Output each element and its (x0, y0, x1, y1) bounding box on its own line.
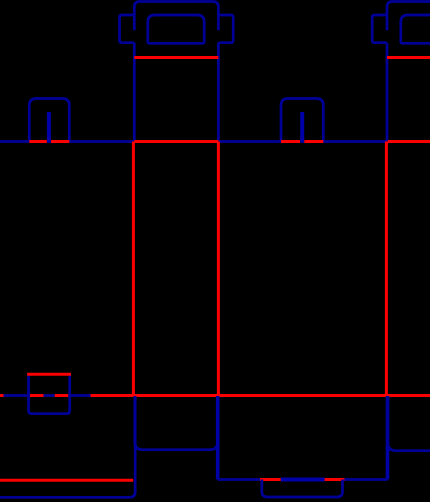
tuck flap 2 outline top (387, 2, 430, 31)
panel fold crease x=218.4 (217, 142, 220, 396)
bottom crease blue cut left of slot (4, 394, 28, 397)
tuck flap 2 left lock ear (372, 15, 387, 43)
wide flap fold center cut (thick blue) (281, 478, 325, 482)
tuck flap 1 outline top (134, 2, 218, 31)
bottom crease red inside slot left (30, 394, 44, 397)
top line red crease right of flap2 edge (388, 140, 430, 143)
bottom crease red long segment (91, 394, 430, 397)
tuck flap 1 right edge lower cut (217, 43, 220, 142)
tuck flap 1 left edge lower cut (133, 43, 136, 142)
tuck flap 2 left edge lower cut (386, 43, 389, 142)
bottom crease blue cut center of slot (44, 394, 55, 397)
bump 1 outline (29, 99, 69, 143)
top line blue cut segment far left (0, 140, 28, 143)
bottom-left flap crease (red) (0, 479, 133, 482)
dust flap 1 outline (135, 396, 218, 450)
bump 2 red crease left part (281, 140, 300, 143)
wide flap left edge cut (216, 396, 220, 480)
bottom crease red cap at left edge (0, 394, 4, 397)
bump 1 red crease left part (29, 140, 47, 143)
wide flap fold red right segment (325, 478, 345, 481)
top line blue cut segment between flap1 and bump2 (218, 140, 279, 143)
wide flap fold red left segment (260, 478, 281, 481)
top line blue cut segment between bump2 and flap2 (325, 140, 388, 143)
wide flap fold blue left segment (218, 478, 260, 481)
bump 2 outline (281, 99, 323, 143)
panel fold crease x=133.8 (132, 142, 135, 396)
bump 1 red crease right part (51, 140, 69, 143)
panel fold crease x=386.4 (385, 142, 388, 396)
tuck flap 1 inner window (rounded rect) (148, 15, 204, 43)
dust flap 2 outline (388, 396, 430, 451)
tuck flap 2 inner window (clipped) (401, 15, 430, 43)
snap-lock tongue (262, 480, 343, 498)
top line blue cut segment between bump1 and flap1 (71, 140, 135, 143)
top line red crease under flap1 (134, 140, 218, 143)
tuck flap 1 left lock ear (120, 15, 135, 43)
bottom crease red inside slot right (55, 394, 69, 397)
lock slot top crease (red) (27, 373, 71, 376)
bottom crease blue cut right of slot (71, 394, 90, 397)
lock slot sides and bottom (29, 374, 70, 413)
tuck flap 1 right lock ear (218, 15, 233, 43)
bump 2 center slit (300, 112, 304, 143)
bump 2 red crease right part (304, 140, 323, 143)
bottom-left flap outer cut (0, 396, 135, 497)
wide flap right edge cut (386, 396, 390, 480)
tuck flap 1 crease (red) (134, 56, 218, 59)
wide flap fold blue right segment (344, 478, 387, 481)
tuck flap 2 crease (red) (387, 56, 430, 59)
bump 1 center slit (47, 112, 51, 143)
